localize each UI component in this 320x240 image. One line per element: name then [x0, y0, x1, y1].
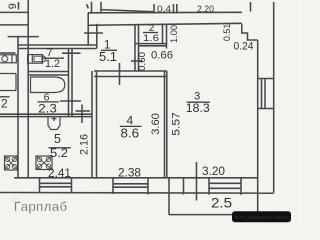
wall east inner line [257, 40, 259, 215]
wall room2 west line B [138, 24, 140, 71]
wall WC north top line [18, 44, 97, 46]
svg-text:2.20: 2.20 [197, 4, 214, 14]
wire left unit top wall line 1 [0, 11, 28, 13]
avito badge [232, 211, 291, 222]
wire WC door tick [62, 52, 81, 54]
svg-text:3.60: 3.60 [150, 113, 162, 135]
wire top dim tick B2 [176, 4, 178, 14]
toilet U1 inner [34, 56, 42, 62]
balcony west edge [168, 178, 170, 215]
stove our unit [36, 156, 52, 170]
svg-text:0.66: 0.66 [151, 49, 173, 61]
toilet U1 bowl [43, 56, 46, 62]
balcony door jamb [183, 178, 185, 195]
wire top dim tick A [153, 4, 155, 14]
svg-text:Фото добавлено Авито: Фото добавлено Авито [235, 215, 289, 221]
toilet left unit divider [11, 55, 13, 63]
window balcony line A [209, 182, 241, 184]
wall WC north bottom line [18, 48, 97, 50]
svg-text:0.24: 0.24 [234, 41, 254, 53]
svg-text:5.1: 5.1 [99, 50, 117, 64]
wall WC-bath divider bottom [28, 74, 68, 76]
wire top dimension line [101, 10, 154, 12]
wire room4 door tick [119, 63, 121, 85]
window room4 jamb left [112, 178, 114, 194]
svg-text:0.60: 0.60 [137, 52, 148, 71]
wire top dim slanted tick [87, 4, 89, 8]
wall NE step [242, 24, 258, 40]
toilet U1 cistern [28, 55, 43, 64]
wire top dim tick C [250, 2, 252, 12]
wall WC-bath divider top [28, 71, 68, 73]
wall WC-bath east line B [71, 49, 73, 117]
toilet left unit bowl [2, 56, 8, 62]
window balcony jamb right [240, 178, 242, 195]
window east frame line A [261, 79, 263, 109]
window kitchen jamb right [71, 178, 73, 194]
wall bottom inner line [14, 177, 258, 179]
wire left unit glyph tick [18, 2, 20, 10]
svg-text:1.2: 1.2 [45, 58, 60, 70]
wire top wall outer line [88, 11, 242, 14]
wall room3 west line A [164, 71, 166, 178]
wall east outer line [273, 2, 275, 193]
svg-text:3.20: 3.20 [202, 166, 225, 178]
window east frame line B [264, 79, 266, 109]
wall WC-bath east line A [68, 49, 70, 117]
svg-text:18.3: 18.3 [186, 101, 210, 115]
svg-text:0.4: 0.4 [157, 4, 171, 14]
window balcony jamb left [208, 178, 210, 195]
wall room2 south line B [139, 45, 167, 47]
svg-text:5.57: 5.57 [171, 112, 183, 136]
wire balcony door tick [196, 162, 198, 201]
wire left unit dim tick line [8, 36, 39, 38]
wall bath south bottom line [0, 116, 92, 118]
svg-text:Гарплаб: Гарплаб [14, 199, 68, 214]
wire kitchen door tick vertical [81, 105, 83, 124]
wall party right line [27, 0, 29, 178]
sink tap [52, 117, 57, 121]
wire top wall inner line [88, 23, 242, 25]
wall room2 corner return [166, 44, 168, 49]
toilet U1 divider [31, 55, 33, 64]
window balcony line B [209, 187, 241, 189]
svg-text:0.51: 0.51 [222, 24, 233, 42]
watermark garplan [12, 199, 68, 215]
svg-text:2.38: 2.38 [118, 167, 141, 179]
fraction line room 7 [43, 57, 65, 59]
wall party left line [17, 37, 19, 178]
window kitchen line B [40, 186, 72, 188]
fraction line left unit room [0, 96, 10, 98]
wire bath door tick [60, 100, 81, 102]
svg-text:1.00: 1.00 [169, 25, 180, 43]
svg-text:5: 5 [54, 132, 61, 146]
toilet left unit cistern [0, 55, 16, 63]
wire top dim tick west A [91, 2, 93, 13]
wire room2 door tick [131, 60, 143, 62]
svg-text:1.6: 1.6 [143, 33, 159, 44]
wall kitchen east line A [91, 71, 93, 178]
svg-text:5.2: 5.2 [50, 148, 68, 160]
wall bath south top line [0, 113, 92, 115]
wall room2 east line B [166, 24, 168, 44]
stove left unit [5, 156, 18, 170]
fraction line room 6 [37, 101, 59, 103]
wall kitchen east line B [96, 71, 98, 178]
fraction line room 2 [143, 32, 158, 34]
window kitchen jamb left [39, 178, 41, 193]
wall west hallway line B [96, 24, 98, 49]
fraction line room 5 [49, 147, 71, 149]
balcony bottom edge [169, 214, 258, 216]
wall room2 west line A [134, 24, 136, 71]
bathtub our unit [31, 77, 65, 93]
wall room2 east line A [162, 24, 164, 44]
wall room3 west line B [166, 71, 168, 178]
window east cap top [258, 78, 274, 80]
wire left unit top wall line 2 [0, 24, 28, 26]
wall west hallway line A [87, 13, 89, 45]
svg-text:2.3: 2.3 [38, 101, 57, 115]
wire top dim tick west B [100, 2, 102, 13]
wire top dim tick B1 [173, 4, 175, 14]
svg-text:2: 2 [1, 97, 8, 111]
wall bottom outer line [0, 192, 274, 195]
wire left unit WC wall [0, 52, 16, 54]
svg-text:2.41: 2.41 [48, 168, 71, 180]
fraction line room 3 [187, 101, 210, 103]
svg-text:8.6: 8.6 [121, 126, 140, 141]
sink kitchen [48, 117, 60, 130]
wall room4 north top line [94, 70, 167, 72]
wall room4 north bottom line [94, 76, 167, 78]
window kitchen line A [40, 182, 72, 184]
window room4 line A [113, 183, 148, 185]
fraction line room 4 [120, 125, 142, 127]
wire entry door line [84, 32, 103, 34]
window room4 line B [113, 186, 148, 188]
wall room2 south line [135, 43, 167, 45]
wire kitchen door tick horizontal [76, 110, 91, 112]
svg-text:2.16: 2.16 [79, 134, 91, 155]
svg-text:2.5: 2.5 [211, 196, 232, 211]
window room4 jamb right [147, 178, 149, 195]
svg-text:6: 6 [6, 3, 18, 9]
bathtub left unit [0, 74, 16, 91]
window east cap bottom [258, 108, 274, 110]
fraction line room 1 [101, 49, 117, 51]
